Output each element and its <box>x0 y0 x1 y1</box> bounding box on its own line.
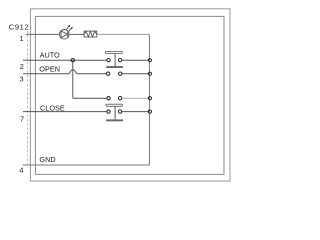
OPEN wire left with hop <box>23 70 107 74</box>
svg-text:C912: C912 <box>9 23 29 32</box>
S2 contact CLOSE left <box>107 110 110 113</box>
S1 contact OPEN left <box>107 72 110 75</box>
LED arrow 2 <box>69 27 73 32</box>
AUTO wire left <box>23 59 107 61</box>
CLOSE wire left <box>23 111 107 113</box>
svg-text:2: 2 <box>20 62 24 71</box>
LED lamp <box>60 30 70 40</box>
svg-text:1: 1 <box>20 34 24 43</box>
outer border frame <box>30 9 230 181</box>
LED arrow 1 <box>67 25 71 30</box>
close-top wire right to bus <box>122 97 149 99</box>
svg-text:3: 3 <box>20 74 24 83</box>
inner border frame <box>35 16 224 174</box>
S1 contact OPEN right <box>119 72 122 75</box>
CLOSE wire right to bus <box>122 111 149 113</box>
wire pin1 to LED <box>26 33 60 35</box>
node junction on AUTO <box>71 59 74 62</box>
svg-text:4: 4 <box>19 165 23 174</box>
S1 contact AUTO left <box>107 59 110 62</box>
svg-text:AUTO: AUTO <box>40 51 60 60</box>
S1 contact AUTO right <box>118 59 121 62</box>
S2 contact top right <box>118 97 121 100</box>
close-top wire from vertical to switch <box>73 97 107 99</box>
resistor R <box>84 31 97 37</box>
GND wire <box>23 164 150 166</box>
bus junction node OPEN <box>148 72 151 75</box>
AUTO wire right to bus <box>122 59 149 61</box>
switch S1 AUTO/OPEN pushbutton bridge <box>105 51 123 68</box>
connector C912 dashed boundary <box>27 31 29 164</box>
svg-text:CLOSE: CLOSE <box>40 103 65 112</box>
wire LED to resistor <box>69 33 84 35</box>
bus junction node close-top <box>148 97 151 100</box>
bus vertical wire <box>148 34 150 165</box>
OPEN wire right to bus <box>122 73 149 75</box>
S2 contact CLOSE right <box>118 110 121 113</box>
vertical wire from AUTO junction down <box>72 60 74 98</box>
S2 contact top left <box>107 97 110 100</box>
wire resistor to bus corner <box>97 33 150 35</box>
svg-text:GND: GND <box>39 155 55 164</box>
switch S2 CLOSE pushbutton bridge <box>106 104 123 121</box>
bus junction node AUTO <box>148 59 151 62</box>
svg-text:OPEN: OPEN <box>39 64 60 73</box>
bus junction node CLOSE <box>148 110 151 113</box>
svg-text:7: 7 <box>20 115 24 124</box>
